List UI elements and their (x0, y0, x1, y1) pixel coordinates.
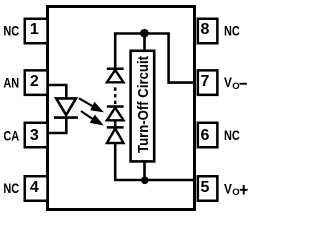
svg-text:O: O (232, 187, 239, 198)
wire bottom from stack to pin 5 side (115, 143, 194, 180)
svg-text:4: 4 (30, 179, 39, 196)
svg-text:NC: NC (224, 22, 240, 38)
pin 6 box (198, 123, 218, 148)
svg-text:7: 7 (201, 73, 210, 90)
svg-text:3: 3 (30, 127, 39, 144)
LED emitter triangle (56, 98, 76, 115)
wire turn-off bottom lead (143, 161, 146, 180)
photodiode D3 triangle (107, 129, 124, 143)
photodiode D2 triangle (107, 108, 124, 121)
svg-text:NC: NC (3, 23, 19, 39)
junction dot bottom (141, 177, 149, 185)
photodiode D2 cathode bar (107, 105, 124, 108)
svg-text:O: O (232, 81, 239, 92)
wire cathode from LED to pin 3 (48, 117, 67, 134)
turn-off circuit box U2 (131, 51, 155, 162)
wire turn-off top lead (143, 34, 146, 51)
svg-text:NC: NC (224, 127, 240, 143)
pin 7 box (198, 70, 218, 95)
wire anode from pin 2 to LED (48, 85, 67, 98)
svg-text:V: V (224, 181, 232, 197)
pin 8 box (198, 19, 218, 44)
svg-text:CA: CA (3, 127, 19, 143)
svg-text:5: 5 (201, 179, 210, 196)
photodiode D3 cathode bar (107, 126, 124, 129)
light arrow 2 (81, 111, 104, 126)
svg-text:1: 1 (30, 21, 39, 38)
svg-text:8: 8 (201, 21, 210, 38)
pin 1 box (25, 19, 48, 44)
photodiode D1 triangle (107, 70, 124, 82)
svg-text:V: V (224, 74, 232, 90)
dashed wire (more diodes) (114, 87, 117, 104)
pin 5 box (198, 176, 218, 201)
IC body outline U1 (48, 7, 195, 210)
svg-text:NC: NC (3, 180, 19, 196)
photodiode D1 cathode bar (107, 67, 124, 70)
svg-text:AN: AN (3, 74, 19, 90)
pin 2 box (25, 70, 48, 95)
pin 4 box (25, 176, 48, 201)
light arrow 1 (79, 98, 104, 112)
svg-text:2: 2 (30, 73, 39, 90)
svg-text:Turn-Off Circuit: Turn-Off Circuit (135, 56, 152, 153)
junction dot top (140, 29, 149, 38)
svg-text:6: 6 (201, 127, 210, 144)
wire top from photodiode stack to corner (115, 34, 194, 83)
LED cathode bar (54, 116, 78, 119)
pin 3 box (25, 123, 48, 148)
wire between D2 and D3 (114, 120, 117, 126)
